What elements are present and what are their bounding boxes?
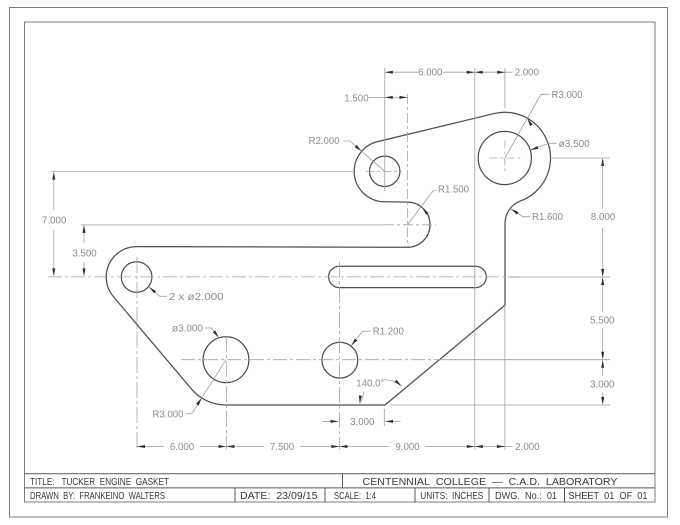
extension line dia3.5 top bbox=[504, 68, 506, 108]
svg-text:DATE: 23/09/15: DATE: 23/09/15 bbox=[240, 491, 318, 502]
svg-text:TITLE: TUCKER ENGINE GASKE: TITLE: TUCKER ENGINE GASKET bbox=[30, 477, 169, 488]
centerline vertical R1.2 hole bbox=[338, 262, 340, 450]
leader R1.600 bbox=[511, 209, 530, 217]
centerline vertical dia3 hole bbox=[225, 336, 227, 450]
title block top line bbox=[25, 473, 656, 475]
dim 6.000 line right bbox=[443, 71, 475, 73]
dim 3.000 box line left bbox=[322, 420, 338, 422]
dim 6.000 arrow left bbox=[385, 71, 393, 74]
gasket part outline bbox=[106, 112, 550, 405]
dim b6.000 arrow right bbox=[218, 445, 226, 448]
svg-text:5.500: 5.500 bbox=[590, 315, 615, 326]
svg-text:7.500: 7.500 bbox=[270, 442, 295, 453]
dim b2.000 arrow right bbox=[497, 445, 505, 448]
centerline R1.5 cap vertical bbox=[407, 94, 409, 247]
dim 1.500 arrow left bbox=[385, 96, 393, 99]
dim 7.000 arrow down bbox=[52, 268, 55, 276]
centerline vertical left hole bbox=[136, 257, 138, 450]
dim 3.000 line lower bbox=[602, 392, 604, 403]
dim 5.500 arrow down bbox=[601, 352, 604, 360]
title block divider row2 bbox=[234, 488, 236, 502]
centerline R1.5 cap horizontal bbox=[384, 224, 436, 226]
extension line 7.000 top bbox=[51, 171, 353, 173]
leader R3.000 bottom bbox=[186, 360, 226, 414]
svg-text:6.000: 6.000 bbox=[418, 68, 443, 79]
dim 3.500 line upper bbox=[83, 227, 85, 244]
dim 5.500 line lower bbox=[602, 328, 604, 358]
extension line 5.500 bottom bbox=[443, 359, 610, 361]
dim b6.000 line left bbox=[137, 446, 164, 448]
extension line slot right cap bbox=[474, 68, 476, 450]
leader R1.200 bbox=[351, 331, 371, 346]
svg-text:CENTENNIAL COLLEGE — C.A.D.: CENTENNIAL COLLEGE — C.A.D. LABORATORY bbox=[363, 477, 618, 488]
leader 2x dia2.000 bbox=[149, 287, 167, 296]
dim 2.000 stub bbox=[505, 71, 512, 73]
angle arrow left bbox=[359, 395, 362, 403]
dim 7.000 arrow up bbox=[52, 172, 55, 180]
dim b2.000 arrow left bbox=[475, 445, 483, 448]
title block divider row1 bbox=[342, 474, 344, 488]
dim 5.500 line upper bbox=[602, 279, 604, 312]
svg-text:9.000: 9.000 bbox=[395, 442, 420, 453]
dim b7.500 line left bbox=[226, 446, 264, 448]
angle dim 140.0 arc left bbox=[360, 392, 364, 404]
dim 3.000 box line right bbox=[386, 420, 401, 422]
title block divider row2 bbox=[414, 488, 416, 502]
svg-text:R3.000: R3.000 bbox=[153, 410, 185, 421]
dim 1.500 line bbox=[385, 96, 408, 98]
dim b6.000 arrow left bbox=[137, 445, 145, 448]
dim b6.000 line right bbox=[200, 446, 226, 448]
svg-text:3.000: 3.000 bbox=[350, 417, 375, 428]
leader R2.000 upper bbox=[343, 141, 384, 171]
svg-text:R2.000: R2.000 bbox=[309, 136, 341, 147]
svg-text:2 x ø2.000: 2 x ø2.000 bbox=[169, 292, 224, 303]
dim 8.000 line upper bbox=[602, 160, 604, 209]
hole left 2x dia2.000 bbox=[121, 262, 152, 293]
dim 3.000 arrow down bbox=[601, 397, 604, 405]
dim 2.000 line bbox=[475, 71, 506, 73]
extension line leg bottom bbox=[504, 305, 506, 449]
svg-text:R1.200: R1.200 bbox=[373, 327, 405, 338]
svg-text:DWG. No.: 01: DWG. No.: 01 bbox=[495, 491, 557, 502]
dim 2.000 arrow left bbox=[475, 71, 483, 74]
svg-text:ø3.500: ø3.500 bbox=[559, 139, 591, 150]
centerline horizontal lower bbox=[181, 359, 443, 361]
hole R1.200 bbox=[322, 342, 358, 378]
dim 3.000 box arrow left bbox=[331, 420, 339, 423]
svg-text:1.500: 1.500 bbox=[344, 93, 369, 104]
title block divider row2 bbox=[564, 488, 566, 502]
centerline dia3.5 horizontal bbox=[489, 157, 520, 159]
hole dia3.000 bbox=[203, 337, 249, 383]
svg-text:7.000: 7.000 bbox=[42, 216, 67, 227]
dim 3.500 arrow up bbox=[83, 225, 86, 233]
centerline lobe horizontal bbox=[366, 171, 402, 173]
dim 3.500 arrow down bbox=[83, 268, 86, 276]
svg-text:R3.000: R3.000 bbox=[552, 90, 584, 101]
tick 140 corner bbox=[383, 409, 385, 426]
dim b2.000 stub bbox=[505, 446, 513, 448]
dim 7.000 line upper bbox=[53, 174, 55, 211]
title block divider row2 bbox=[324, 488, 326, 502]
leader dia3.500 bbox=[531, 143, 557, 150]
svg-text:R1.600: R1.600 bbox=[532, 212, 564, 223]
dim 3.000 arrow up bbox=[601, 360, 604, 368]
dim b7.500 line right bbox=[300, 446, 339, 448]
dim 6.000 line left bbox=[385, 71, 418, 73]
dim 6.000 arrow right bbox=[467, 71, 475, 74]
extension line lobe center bbox=[384, 68, 386, 191]
angle dim 140.0 arc right bbox=[384, 380, 401, 386]
svg-text:UNITS: INCHES: UNITS: INCHES bbox=[420, 491, 483, 502]
svg-text:ø3.000: ø3.000 bbox=[172, 324, 204, 335]
dim 1.500 arrow right bbox=[400, 96, 408, 99]
svg-text:SCALE: 1:4: SCALE: 1:4 bbox=[334, 491, 376, 502]
svg-text:8.000: 8.000 bbox=[591, 212, 616, 223]
leader R3.000 upper bbox=[505, 94, 550, 158]
dim 2.000 arrow right bbox=[497, 71, 505, 74]
title block divider row2 bbox=[488, 488, 490, 502]
extension line 3.500 top bbox=[81, 224, 384, 226]
svg-text:3.000: 3.000 bbox=[590, 380, 615, 391]
dim 3.500 line lower bbox=[83, 262, 85, 275]
dim 1.500 stub bbox=[369, 96, 385, 98]
svg-text:140.0°: 140.0° bbox=[356, 379, 384, 390]
title block middle line bbox=[25, 487, 656, 489]
centerline vertical dia3.5 bbox=[504, 141, 506, 172]
leader R1.500 bbox=[407, 191, 436, 225]
dim 7.000 line lower bbox=[53, 230, 55, 275]
svg-text:2.000: 2.000 bbox=[515, 68, 540, 79]
dim 3.000 line upper bbox=[602, 362, 604, 377]
leader dia3.000 bbox=[205, 328, 218, 336]
dim b7.500 arrow right bbox=[331, 445, 339, 448]
dim b9.000 arrow left bbox=[339, 445, 347, 448]
svg-text:3.500: 3.500 bbox=[72, 249, 97, 260]
dim b9.000 line right bbox=[425, 446, 475, 448]
dim b9.000 line left bbox=[339, 446, 389, 448]
centerline horizontal upper bbox=[48, 276, 519, 278]
slot bbox=[329, 266, 487, 287]
extension line 8.000 top bbox=[552, 157, 610, 159]
svg-text:DRAWN BY: FRANKEINO WALTERS: DRAWN BY: FRANKEINO WALTERS bbox=[30, 491, 165, 502]
hole dia3.500 bbox=[478, 131, 531, 184]
dim 3.000 box arrow right bbox=[385, 420, 393, 423]
svg-text:2.000: 2.000 bbox=[515, 442, 540, 453]
dim 8.000 arrow down bbox=[601, 269, 604, 277]
angle arrow right bbox=[395, 380, 402, 386]
extension line 8.000 bottom bbox=[509, 276, 610, 278]
dim b7.500 arrow left bbox=[226, 445, 234, 448]
dim 8.000 line lower bbox=[602, 228, 604, 276]
hole upper 2x dia2.000 bbox=[370, 156, 400, 186]
svg-text:SHEET 01 OF 01: SHEET 01 OF 01 bbox=[569, 491, 648, 502]
dim 8.000 arrow up bbox=[601, 158, 604, 166]
dim b9.000 arrow right bbox=[467, 445, 475, 448]
extension line 3.000 bottom right bbox=[390, 404, 610, 406]
svg-text:R1.500: R1.500 bbox=[438, 185, 470, 196]
dim b2.000 line bbox=[475, 446, 505, 448]
dim 5.500 arrow up bbox=[601, 277, 604, 285]
svg-text:6.000: 6.000 bbox=[170, 442, 195, 453]
